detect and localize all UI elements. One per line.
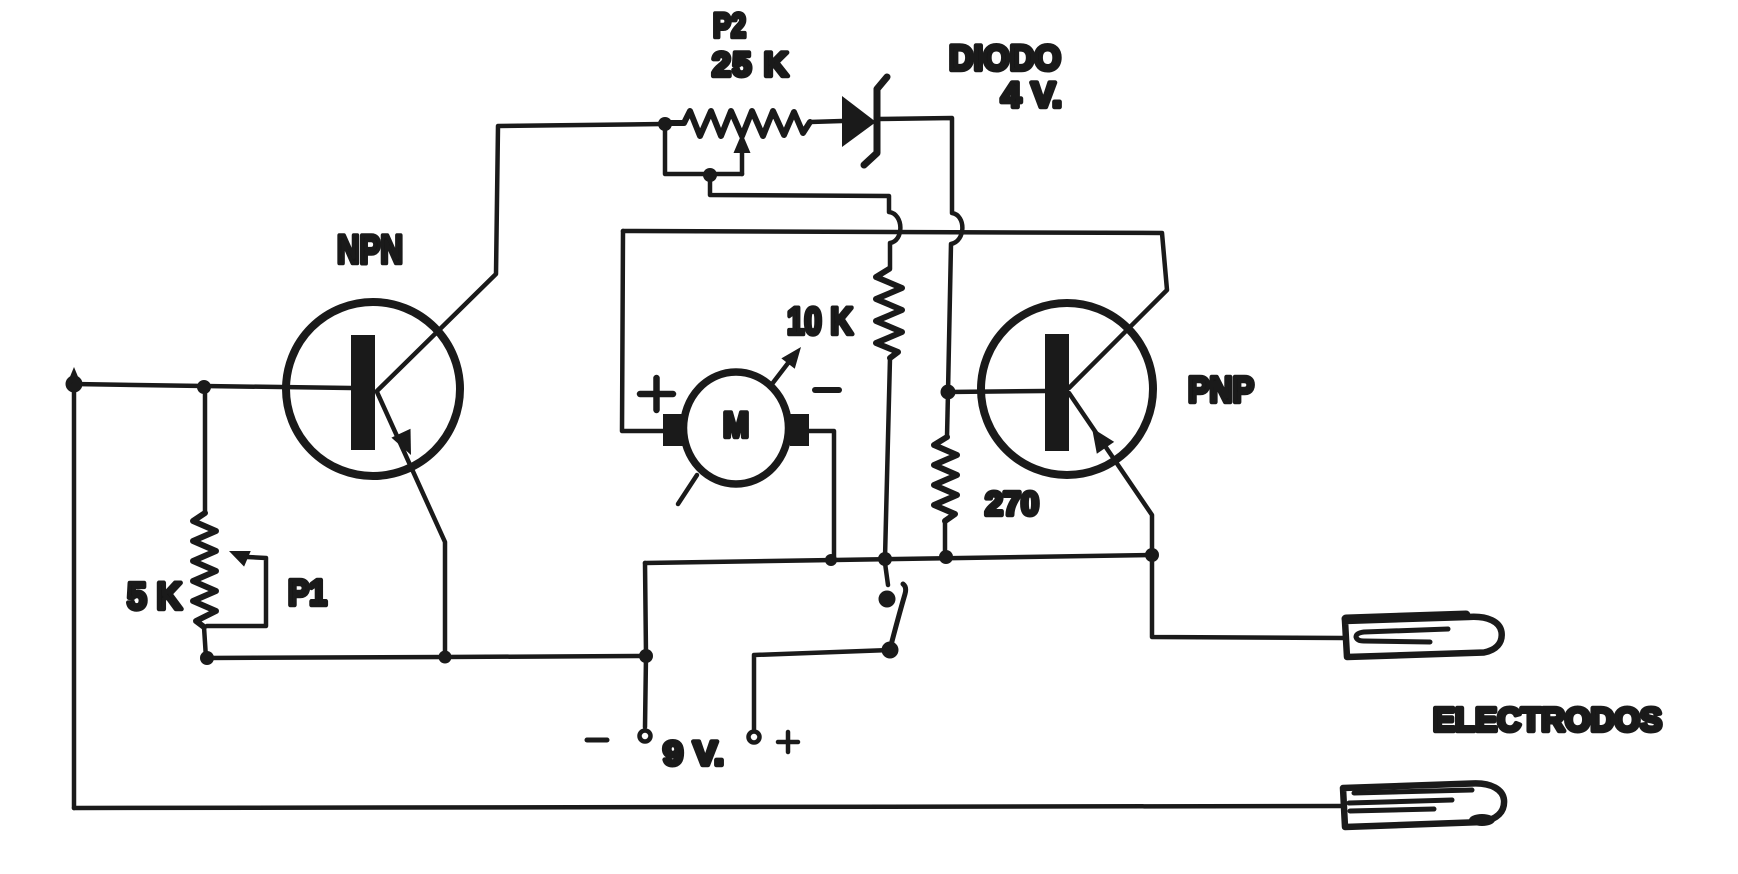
svg-text:270: 270 [985, 485, 1039, 522]
battery 9V: plus lead to switch [754, 650, 890, 729]
potentiometer P1 5K: resistor body [193, 513, 216, 627]
potentiometer P1 5K: bottom lead [204, 627, 206, 658]
node: left input corner (teardrop) [67, 367, 81, 384]
switch S1: lower contact [882, 642, 899, 659]
transistor PNP: circle [981, 303, 1153, 475]
junction: NPN emitter node [439, 651, 452, 664]
motor M: adjustment arrow [772, 354, 795, 384]
wire: electrode 1 lead from PNP emitter node [1152, 555, 1343, 638]
label: battery minus sign [587, 738, 607, 743]
svg-text:DIODO: DIODO [949, 39, 1061, 78]
svg-text:P2: P2 [713, 7, 746, 45]
wire: wiper node down to 10K resistor, hops over motor rail [710, 175, 900, 269]
arrowhead: NPN emitter [391, 429, 420, 460]
junction: 5K bottom node [200, 651, 214, 665]
svg-text:P1: P1 [288, 572, 327, 613]
svg-text:4 V.: 4 V. [1001, 76, 1062, 115]
junction: 270 bottom node [939, 550, 953, 564]
junction: P2 input node [658, 117, 672, 131]
svg-text:5 K: 5 K [127, 576, 183, 618]
svg-text:ELECTRODOS: ELECTRODOS [1433, 701, 1662, 738]
label: motor plus sign [640, 378, 673, 410]
motor M: body circle [684, 372, 789, 484]
label: battery plus sign [778, 732, 798, 752]
junction: 10K bottom node [878, 552, 892, 566]
svg-text:M: M [723, 406, 749, 445]
resistor 270: top lead [947, 392, 948, 437]
wire: diode cathode output, down to PNP base, hops over motor rail [877, 118, 962, 392]
transistor PNP: emitter diagonal [1069, 393, 1152, 554]
wire: bottom collector rail (rail A) [645, 555, 1152, 563]
arrowhead: P2 wiper [734, 133, 751, 153]
wire: rail A drop to battery minus node [645, 563, 646, 655]
wire: P2 wiper loop (left leg) [665, 128, 742, 174]
arrowhead: PNP emitter [1083, 422, 1114, 454]
wire: motor negative lead [809, 431, 834, 560]
svg-text:NPN: NPN [337, 228, 403, 272]
battery 9V: minus terminal [640, 731, 651, 742]
transistor NPN: circle [286, 302, 460, 476]
resistor 10K: body [876, 269, 902, 358]
wire: NPN base rail [74, 384, 351, 388]
switch S1: upper contact [879, 591, 896, 608]
electrode 2: body [1343, 783, 1504, 827]
wire: 10K bottom lead [885, 358, 890, 558]
electrode 1: thick top edge [1346, 615, 1466, 619]
arrowhead: P1 wiper [226, 543, 251, 566]
electrode 1: inner hairpin detail [1356, 629, 1448, 642]
potentiometer P1 5K: top lead [203, 387, 208, 513]
junction: base / 5K node [197, 380, 211, 394]
transistor NPN: emitter diagonal [377, 392, 445, 655]
svg-text:PNP: PNP [1188, 369, 1254, 410]
transistor PNP: base bar [1045, 334, 1069, 451]
switch S1: lever [890, 584, 906, 649]
svg-text:9 V.: 9 V. [663, 735, 724, 773]
electrode 2: inner hatch lines [1349, 790, 1472, 811]
resistor 270: body [934, 437, 957, 521]
junction: PNP emitter node [1145, 548, 1159, 562]
zener diode cathode bar with bent ends [864, 77, 887, 165]
motor M: shaft line [678, 475, 697, 504]
battery 9V: minus lead [645, 656, 646, 727]
electrode 2: bottom-right blob [1469, 814, 1495, 826]
wire: left return drop [72, 384, 77, 808]
wire: emitter rail (NPN emitter / 5K / battery minus) [206, 656, 647, 658]
motor M: left brush [663, 414, 683, 446]
label: motor minus sign [815, 387, 839, 393]
electrode 1: body [1345, 617, 1502, 657]
svg-text:25 K: 25 K [712, 46, 790, 84]
zener diode DIODO 4V: anode triangle [842, 96, 876, 147]
wire: P2 wiper arm [740, 148, 745, 174]
wire: motor positive lead [622, 231, 665, 431]
potentiometer P2 25K (resistor body) [666, 111, 810, 136]
wire: P1 wiper bracket [207, 557, 266, 626]
wire: NPN collector riser to P2 input [377, 124, 663, 391]
svg-text:10 K: 10 K [787, 301, 853, 343]
junction: battery minus node [639, 649, 653, 663]
transistor NPN: base bar [351, 335, 375, 450]
junction: motor negative node [825, 554, 837, 566]
switch S1: stub from rail [885, 563, 888, 585]
wire: P2 anode lead to diode [810, 121, 842, 122]
wire: bottom return rail to electrode 2 [74, 806, 1341, 808]
wire: PNP base lead [948, 391, 1045, 392]
wire: motor positive rail (top) [623, 231, 1167, 388]
junction: PNP base node [941, 385, 956, 400]
battery 9V: plus terminal [749, 732, 760, 743]
resistor 270: bottom lead [943, 521, 948, 556]
junction: wiper loop node [703, 168, 717, 182]
motor M: right brush [790, 414, 809, 446]
